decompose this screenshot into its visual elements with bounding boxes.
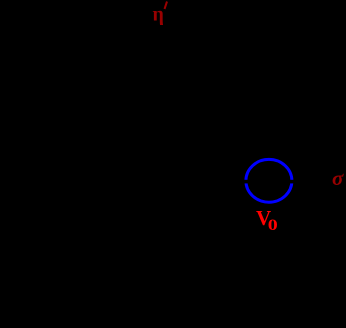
wire gap left: [242, 180, 248, 184]
svg-text:η: η: [153, 3, 164, 25]
prime mark of eta: [165, 2, 168, 10]
circle V0 (blue contour): [246, 159, 292, 202]
svg-text:σ: σ: [332, 166, 344, 190]
svg-text:0: 0: [268, 216, 278, 234]
wire gap right: [290, 180, 296, 184]
